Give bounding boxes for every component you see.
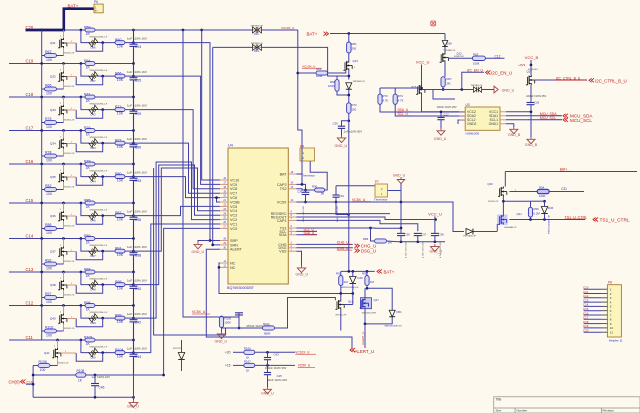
resistor R82 100	[57, 189, 64, 191]
svg-text:P8: P8	[608, 281, 612, 285]
svg-text:R70: R70	[383, 94, 389, 98]
svg-text:Thermistor: Thermistor	[302, 173, 315, 177]
wire U3 VCC2	[441, 111, 465, 113]
svg-text:R108: R108	[77, 369, 85, 373]
svg-text:2: 2	[54, 346, 55, 348]
wire TS2	[296, 189, 305, 190]
svg-text:C11: C11	[26, 335, 34, 340]
svg-text:C35: C35	[135, 218, 141, 222]
svg-text:C15: C15	[26, 198, 34, 203]
svg-text:WW5252/2BS-1-F: WW5252/2BS-1-F	[90, 210, 108, 212]
resistor R71 1K	[85, 95, 95, 99]
ground GND_U at SRP	[194, 242, 202, 249]
wire BAT+ rail mid	[341, 270, 375, 272]
resistor R96 6.2M	[528, 207, 532, 217]
svg-text:C16: C16	[26, 159, 34, 164]
pin 3 CHG	[288, 243, 296, 245]
capacitor C46	[94, 375, 96, 384]
wire REGOUT	[296, 217, 435, 220]
svg-text:VSS: VSS	[279, 250, 287, 254]
svg-text:1uF ±10% 16V: 1uF ±10% 16V	[127, 278, 147, 282]
svg-text:VC6: VC6	[230, 196, 237, 200]
wire CAP2	[296, 184, 305, 192]
svg-text:C19: C19	[26, 58, 34, 63]
resistor R89 1K	[85, 237, 95, 241]
wire alert node	[365, 309, 392, 324]
tvs diode D50 WW5252/2BS-1-F	[89, 352, 98, 354]
pin 2 header	[584, 293, 601, 295]
ground GND_B left	[510, 127, 518, 134]
svg-text:GND_U: GND_U	[215, 340, 228, 344]
wire to C12 net	[485, 57, 504, 59]
wire net C12	[9, 305, 134, 307]
pin 30 ALERT	[220, 248, 228, 250]
wire gate return	[76, 143, 103, 152]
wire TS1 ctrl out	[509, 219, 585, 221]
svg-text:R80: R80	[115, 172, 121, 176]
resistor R73 10K	[115, 108, 125, 112]
svg-text:Header 11: Header 11	[609, 338, 623, 342]
svg-text:GND_U: GND_U	[192, 250, 205, 254]
pin 23 VC4	[220, 210, 228, 212]
svg-text:R75: R75	[45, 117, 51, 121]
pin 9 header	[584, 323, 601, 325]
pin 18 VC8	[220, 188, 228, 190]
capacitor C41	[235, 312, 243, 314]
svg-text:R65: R65	[45, 83, 51, 87]
svg-text:Q38: Q38	[50, 283, 56, 287]
wire REGSRC	[296, 213, 390, 215]
wire net C16	[9, 163, 134, 165]
svg-text:D38: D38	[447, 42, 452, 46]
svg-text:VC10X_U: VC10X_U	[302, 65, 315, 69]
svg-text:VC2: VC2	[230, 218, 237, 222]
svg-text:Q12: Q12	[457, 52, 463, 56]
wire gate return	[76, 353, 103, 362]
resistor R66 10K	[115, 74, 125, 78]
wire gate return	[76, 76, 103, 85]
svg-text:C25: C25	[135, 79, 141, 83]
wire gate pulldown	[42, 155, 45, 157]
svg-text:D44: D44	[91, 179, 97, 183]
svg-text:100K: 100K	[473, 61, 480, 65]
tvs diode D46 WW5252/2BS-1-F	[89, 215, 98, 217]
wire to C31	[549, 191, 584, 193]
wire net C19	[9, 63, 134, 65]
transistor Q21 BSS84AK	[497, 215, 508, 226]
wire Q16 drain	[352, 300, 354, 305]
svg-text:C36: C36	[405, 233, 411, 237]
wire tvs to filter resistor	[98, 176, 115, 178]
net label ALERT_U	[350, 348, 355, 352]
svg-text:R67: R67	[447, 77, 453, 81]
svg-text:100: 100	[46, 334, 52, 338]
wire gate return	[76, 43, 103, 52]
transistor Q38 SI2301-2S	[63, 272, 65, 280]
transistor Q15	[416, 85, 425, 95]
svg-text:BAT+: BAT+	[560, 168, 568, 172]
svg-text:SRN: SRN	[230, 243, 238, 247]
ground GND_B below C26	[527, 137, 535, 144]
svg-text:R89: R89	[84, 234, 90, 238]
svg-text:R95: R95	[115, 280, 121, 284]
wire net C15	[9, 202, 134, 204]
wire pullup tops	[379, 88, 381, 94]
wire to tvs	[81, 64, 89, 77]
svg-text:MCU_SCL: MCU_SCL	[540, 116, 556, 120]
wire NC tie	[219, 263, 220, 267]
svg-text:GND1: GND1	[489, 122, 499, 126]
diode D46 zener	[350, 277, 357, 284]
pin 10 header	[584, 327, 601, 329]
svg-text:I2C_EN_U: I2C_EN_U	[491, 71, 512, 76]
resistor R62 100	[57, 55, 64, 57]
svg-text:VC4: VC4	[230, 209, 237, 213]
pin 26 VC1	[220, 223, 228, 225]
svg-text:U3: U3	[466, 103, 470, 107]
resistor R64 1K	[85, 62, 95, 66]
resistor R102 100	[57, 330, 64, 332]
svg-text:R59: R59	[84, 25, 90, 29]
svg-text:VC6B: VC6B	[230, 200, 240, 204]
svg-text:I2C_CTRL_B_U: I2C_CTRL_B_U	[556, 77, 581, 81]
ground GND_U below R100	[221, 328, 223, 332]
tvs diode D36 WW5252/2BS-1-F	[89, 42, 98, 44]
wire C39 node down to BAT+ rail	[348, 121, 350, 272]
svg-text:Thermistor: Thermistor	[374, 198, 387, 202]
capacitor C37	[417, 236, 419, 242]
svg-text:SDA_U: SDA_U	[304, 231, 315, 235]
wire filter output	[125, 176, 134, 178]
tvs diode D43 WW5252/2BS-1-F	[89, 142, 98, 144]
svg-text:100: 100	[46, 92, 52, 96]
wire SRP/SRN	[209, 239, 212, 242]
pin 3 header	[584, 297, 601, 299]
svg-text:2: 2	[60, 36, 61, 38]
resistor R87 10K	[115, 214, 125, 218]
svg-text:2: 2	[60, 312, 61, 314]
svg-text:10uF ±10% 20V: 10uF ±10% 20V	[267, 378, 287, 382]
wire filter output	[125, 109, 134, 111]
svg-text:100: 100	[46, 267, 52, 271]
wire CAP1	[296, 220, 418, 231]
svg-text:10K: 10K	[117, 45, 124, 49]
wire TS1	[296, 227, 401, 229]
svg-text:100: 100	[46, 300, 52, 304]
svg-text:C17: C17	[444, 113, 450, 117]
svg-text:R93: R93	[84, 267, 90, 271]
svg-text:WW5252/2BS-1-F: WW5252/2BS-1-F	[90, 245, 108, 247]
resistor R105 1K	[244, 350, 255, 354]
resistor R94 100K	[537, 189, 549, 193]
wire C13 filter to VC3	[134, 165, 221, 285]
transistor Q35 SI2301-2S	[63, 164, 65, 172]
diode D45 zener	[541, 207, 548, 214]
svg-text:VC5X_U: VC5X_U	[352, 198, 366, 202]
svg-text:VC10: VC10	[230, 178, 239, 182]
wire tvs to filter resistor	[98, 250, 115, 252]
pin 27 VC0	[220, 227, 228, 229]
svg-text:VC9: VC9	[230, 183, 237, 187]
svg-text:R71: R71	[84, 92, 90, 96]
wire cap rail	[398, 241, 445, 243]
svg-text:TMP4B05-7F: TMP4B05-7F	[251, 43, 264, 45]
svg-text:R63: R63	[473, 52, 479, 56]
tvs diode D37 WW5252/2BS-1-F	[89, 75, 98, 77]
svg-text:R94: R94	[539, 186, 545, 190]
svg-text:100: 100	[46, 192, 52, 196]
wire Q20 out	[509, 191, 537, 193]
wire I2C_EN up	[462, 72, 484, 89]
svg-text:WW5252/2BS-1-F: WW5252/2BS-1-F	[90, 347, 108, 349]
wire tvs to filter resistor	[98, 142, 115, 144]
wire to tvs	[81, 306, 89, 319]
svg-text:+20: +20	[225, 351, 231, 355]
tvs diode D44 WW5252/2BS-1-F	[89, 176, 98, 178]
svg-text:VC5X_U: VC5X_U	[298, 364, 311, 368]
pin 14 CAP2	[288, 183, 296, 185]
capacitor C33 1uF	[133, 164, 135, 178]
svg-text:R87: R87	[115, 211, 121, 215]
svg-text:SI2301-2S: SI2301-2S	[64, 328, 75, 330]
resistor R68 100K	[335, 80, 339, 92]
svg-text:MMSZ5243B(S-T)F: MMSZ5243B(S-T)F	[549, 214, 551, 234]
wire C16 filter to VC6	[134, 177, 221, 198]
svg-text:C42: C42	[135, 321, 141, 325]
svg-text:VC8: VC8	[230, 187, 237, 191]
wire BAT+ bus (thick)	[26, 9, 95, 30]
svg-text:VC10X_U: VC10X_U	[281, 26, 294, 30]
pin 8 REGOUT	[288, 216, 296, 218]
wire sense line down	[154, 168, 226, 335]
svg-text:SDA: SDA	[279, 233, 287, 237]
svg-text:680K: 680K	[264, 332, 271, 336]
wire tvs to filter resistor	[98, 284, 115, 286]
svg-text:SI2301-2S: SI2301-2S	[64, 153, 75, 155]
svg-text:4.7K: 4.7K	[383, 99, 389, 103]
svg-text:R64: R64	[84, 59, 90, 63]
pin 19 VC7	[220, 192, 228, 194]
wire BAT+ to Q12	[444, 34, 446, 41]
capacitor C42 1uF	[133, 306, 135, 320]
svg-text:2: 2	[60, 70, 61, 72]
svg-text:4.7uF ±10% 16V: 4.7uF ±10% 16V	[423, 241, 425, 258]
svg-text:GND_U: GND_U	[296, 273, 309, 277]
wire net C17	[9, 130, 134, 132]
svg-text:U4: U4	[228, 144, 233, 148]
wire BAT+ right rail	[505, 171, 637, 173]
pin 22 VC5	[220, 205, 228, 207]
diode D thermistor clamp	[466, 229, 473, 235]
wire to tvs	[81, 30, 89, 43]
wire VC5X	[296, 201, 401, 203]
pin 5 header	[584, 305, 601, 307]
svg-text:Q32: Q32	[50, 75, 56, 79]
wire net C11	[9, 339, 134, 341]
wire filter output	[125, 317, 134, 319]
svg-text:1M: 1M	[344, 280, 349, 284]
svg-text:SI2301-2S: SI2301-2S	[64, 261, 75, 263]
svg-text:100: 100	[46, 125, 52, 129]
svg-text:1K: 1K	[86, 205, 91, 209]
svg-text:D50: D50	[91, 355, 97, 359]
svg-text:10K: 10K	[117, 112, 124, 116]
wire to VC10X_U	[255, 351, 295, 353]
wire gate pulldown	[42, 263, 45, 265]
pin 13 TS2	[288, 188, 296, 190]
resistor R59 1K	[85, 28, 95, 32]
svg-text:R106: R106	[39, 360, 47, 364]
ground GND_U ladder	[264, 387, 272, 394]
wire filter output	[125, 284, 134, 286]
capacitor C36	[400, 236, 402, 242]
wire gate return	[76, 318, 103, 327]
svg-text:1uF ±10% 16V: 1uF ±10% 16V	[127, 346, 147, 350]
svg-text:b+: b+	[95, 9, 98, 13]
wire filter output	[125, 352, 134, 354]
svg-text:10K: 10K	[117, 320, 124, 324]
svg-text:D36: D36	[91, 45, 97, 49]
svg-text:TS1_U_CTRL: TS1_U_CTRL	[600, 217, 630, 223]
tvs diode D47 WW5252/2BS-1-F	[89, 250, 98, 252]
wire C14 filter to VC4	[134, 168, 221, 251]
svg-text:2: 2	[60, 103, 61, 105]
svg-text:R88: R88	[45, 223, 51, 227]
capacitor C34	[335, 186, 337, 195]
wire filter output	[125, 75, 134, 77]
resistor R93 1M	[339, 276, 343, 286]
svg-text:BAT: BAT	[280, 172, 288, 176]
wire VC10X clamp	[202, 29, 253, 31]
pin 28 SRP	[220, 240, 228, 242]
svg-text:100: 100	[352, 108, 357, 112]
resistor R85 1K	[85, 201, 95, 205]
resistor R91 10K	[115, 249, 125, 253]
resistor R103 1K	[85, 338, 95, 342]
svg-text:BAT+: BAT+	[68, 4, 79, 9]
svg-text:SCL_U: SCL_U	[398, 112, 409, 116]
pin 16 VC10	[220, 179, 228, 181]
svg-text:R107: R107	[244, 359, 251, 363]
svg-text:WW5252/2BS-1-F: WW5252/2BS-1-F	[90, 312, 108, 314]
svg-text:R102: R102	[45, 325, 53, 329]
svg-text:C46: C46	[99, 386, 105, 390]
svg-text:D43: D43	[91, 146, 97, 150]
svg-text:4.7uF ±10% 16V: 4.7uF ±10% 16V	[406, 241, 408, 258]
resistor R61 100K	[316, 71, 328, 75]
svg-text:C39: C39	[333, 122, 339, 126]
pin 24 VC3	[220, 214, 228, 216]
svg-text:R74: R74	[398, 94, 404, 98]
pin 21 VC6B	[220, 201, 228, 203]
pin 11 header	[584, 331, 601, 333]
transistor Q33 SI2301-2S	[63, 97, 65, 105]
wire C20 filter to SRP	[134, 43, 221, 241]
svg-text:2N7002K-DFN: 2N7002K-DFN	[362, 312, 377, 314]
wire tvs to filter resistor	[98, 109, 115, 111]
svg-text:CH(0): CH(0)	[9, 380, 21, 385]
svg-text:100K: 100K	[316, 74, 323, 78]
wire bottom rail	[33, 396, 133, 398]
svg-text:SI2301-2S: SI2301-2S	[64, 225, 75, 227]
svg-text:Revision: Revision	[603, 409, 615, 413]
resistor R76 1K	[85, 129, 95, 133]
svg-text:1K: 1K	[86, 240, 91, 244]
wire C11 filter to VC1	[134, 224, 221, 353]
resistor R95 10K	[115, 283, 125, 287]
pin 1 header	[584, 288, 601, 290]
capacitor C35 1uF	[133, 203, 135, 217]
wire to tvs	[81, 203, 89, 216]
svg-text:R90: R90	[312, 184, 318, 188]
svg-text:R62: R62	[45, 50, 51, 54]
svg-text:Q13: Q13	[353, 59, 359, 63]
svg-text:2M: 2M	[447, 82, 452, 86]
wire gate return	[76, 110, 103, 119]
pin 25 VC2	[220, 219, 228, 221]
wire to tvs	[81, 239, 89, 252]
wire gate pulldown	[42, 297, 45, 299]
svg-text:R81: R81	[352, 42, 358, 46]
wire C18 filter to VC8	[134, 110, 221, 189]
wire SDA1/SCL1 to MCU	[506, 115, 562, 117]
title block	[494, 397, 640, 413]
svg-text:WW5252/2BS-1-F: WW5252/2BS-1-F	[90, 70, 108, 72]
wire Q17 connections	[367, 288, 392, 311]
wire Q13 drain down	[348, 70, 350, 80]
svg-text:100K: 100K	[225, 321, 232, 325]
svg-text:D48: D48	[91, 287, 97, 291]
svg-text:SI2301-2S: SI2301-2S	[64, 119, 75, 121]
wire C17 filter to VC7	[134, 143, 221, 193]
svg-text:Title: Title	[496, 397, 502, 401]
svg-text:GND_B: GND_B	[525, 143, 538, 147]
wire to tvs	[81, 340, 89, 353]
svg-text:MMSZ5245BT1G: MMSZ5245BT1G	[385, 326, 402, 328]
transistor Q36 SI2301-2S	[63, 203, 65, 211]
wire filter output	[125, 142, 134, 144]
capacitor C45	[267, 365, 269, 372]
svg-text:Q41: Q41	[44, 351, 50, 355]
pin 2 DSG	[288, 247, 296, 249]
wire C12 filter to VC2	[134, 162, 221, 318]
svg-text:2: 2	[60, 170, 61, 172]
capacitor C38	[434, 236, 436, 242]
svg-text:CHG_U: CHG_U	[337, 241, 349, 245]
svg-text:100K: 100K	[328, 84, 335, 88]
wire tvs to filter resistor	[98, 317, 115, 319]
svg-text:D46: D46	[358, 276, 364, 280]
transistor Q17 2N7002K highlighted	[361, 298, 372, 309]
wire C15 filter to VC5	[134, 206, 221, 215]
tvs diode D48 WW5252/2BS-1-F	[89, 284, 98, 286]
svg-text:VC5X_U: VC5X_U	[192, 310, 206, 314]
wire tvs to filter resistor	[98, 75, 115, 77]
pin 10 VC5X	[288, 201, 296, 203]
resistor R92 100	[57, 263, 64, 265]
wire net C18	[9, 96, 134, 98]
svg-text:BAT+: BAT+	[384, 269, 395, 274]
svg-text:TMP4B05-7F: TMP4B05-7F	[251, 26, 264, 28]
svg-text:2: 2	[60, 137, 61, 139]
svg-text:10K: 10K	[117, 218, 124, 222]
transistor Q34 SI2301-2S	[63, 131, 65, 139]
resistor R90 1M	[306, 189, 315, 191]
wire SCL_U line	[395, 104, 465, 116]
svg-text:D47: D47	[91, 254, 97, 258]
svg-text:SI2301-2S: SI2301-2S	[64, 186, 75, 188]
svg-text:GND_U: GND_U	[434, 137, 447, 141]
